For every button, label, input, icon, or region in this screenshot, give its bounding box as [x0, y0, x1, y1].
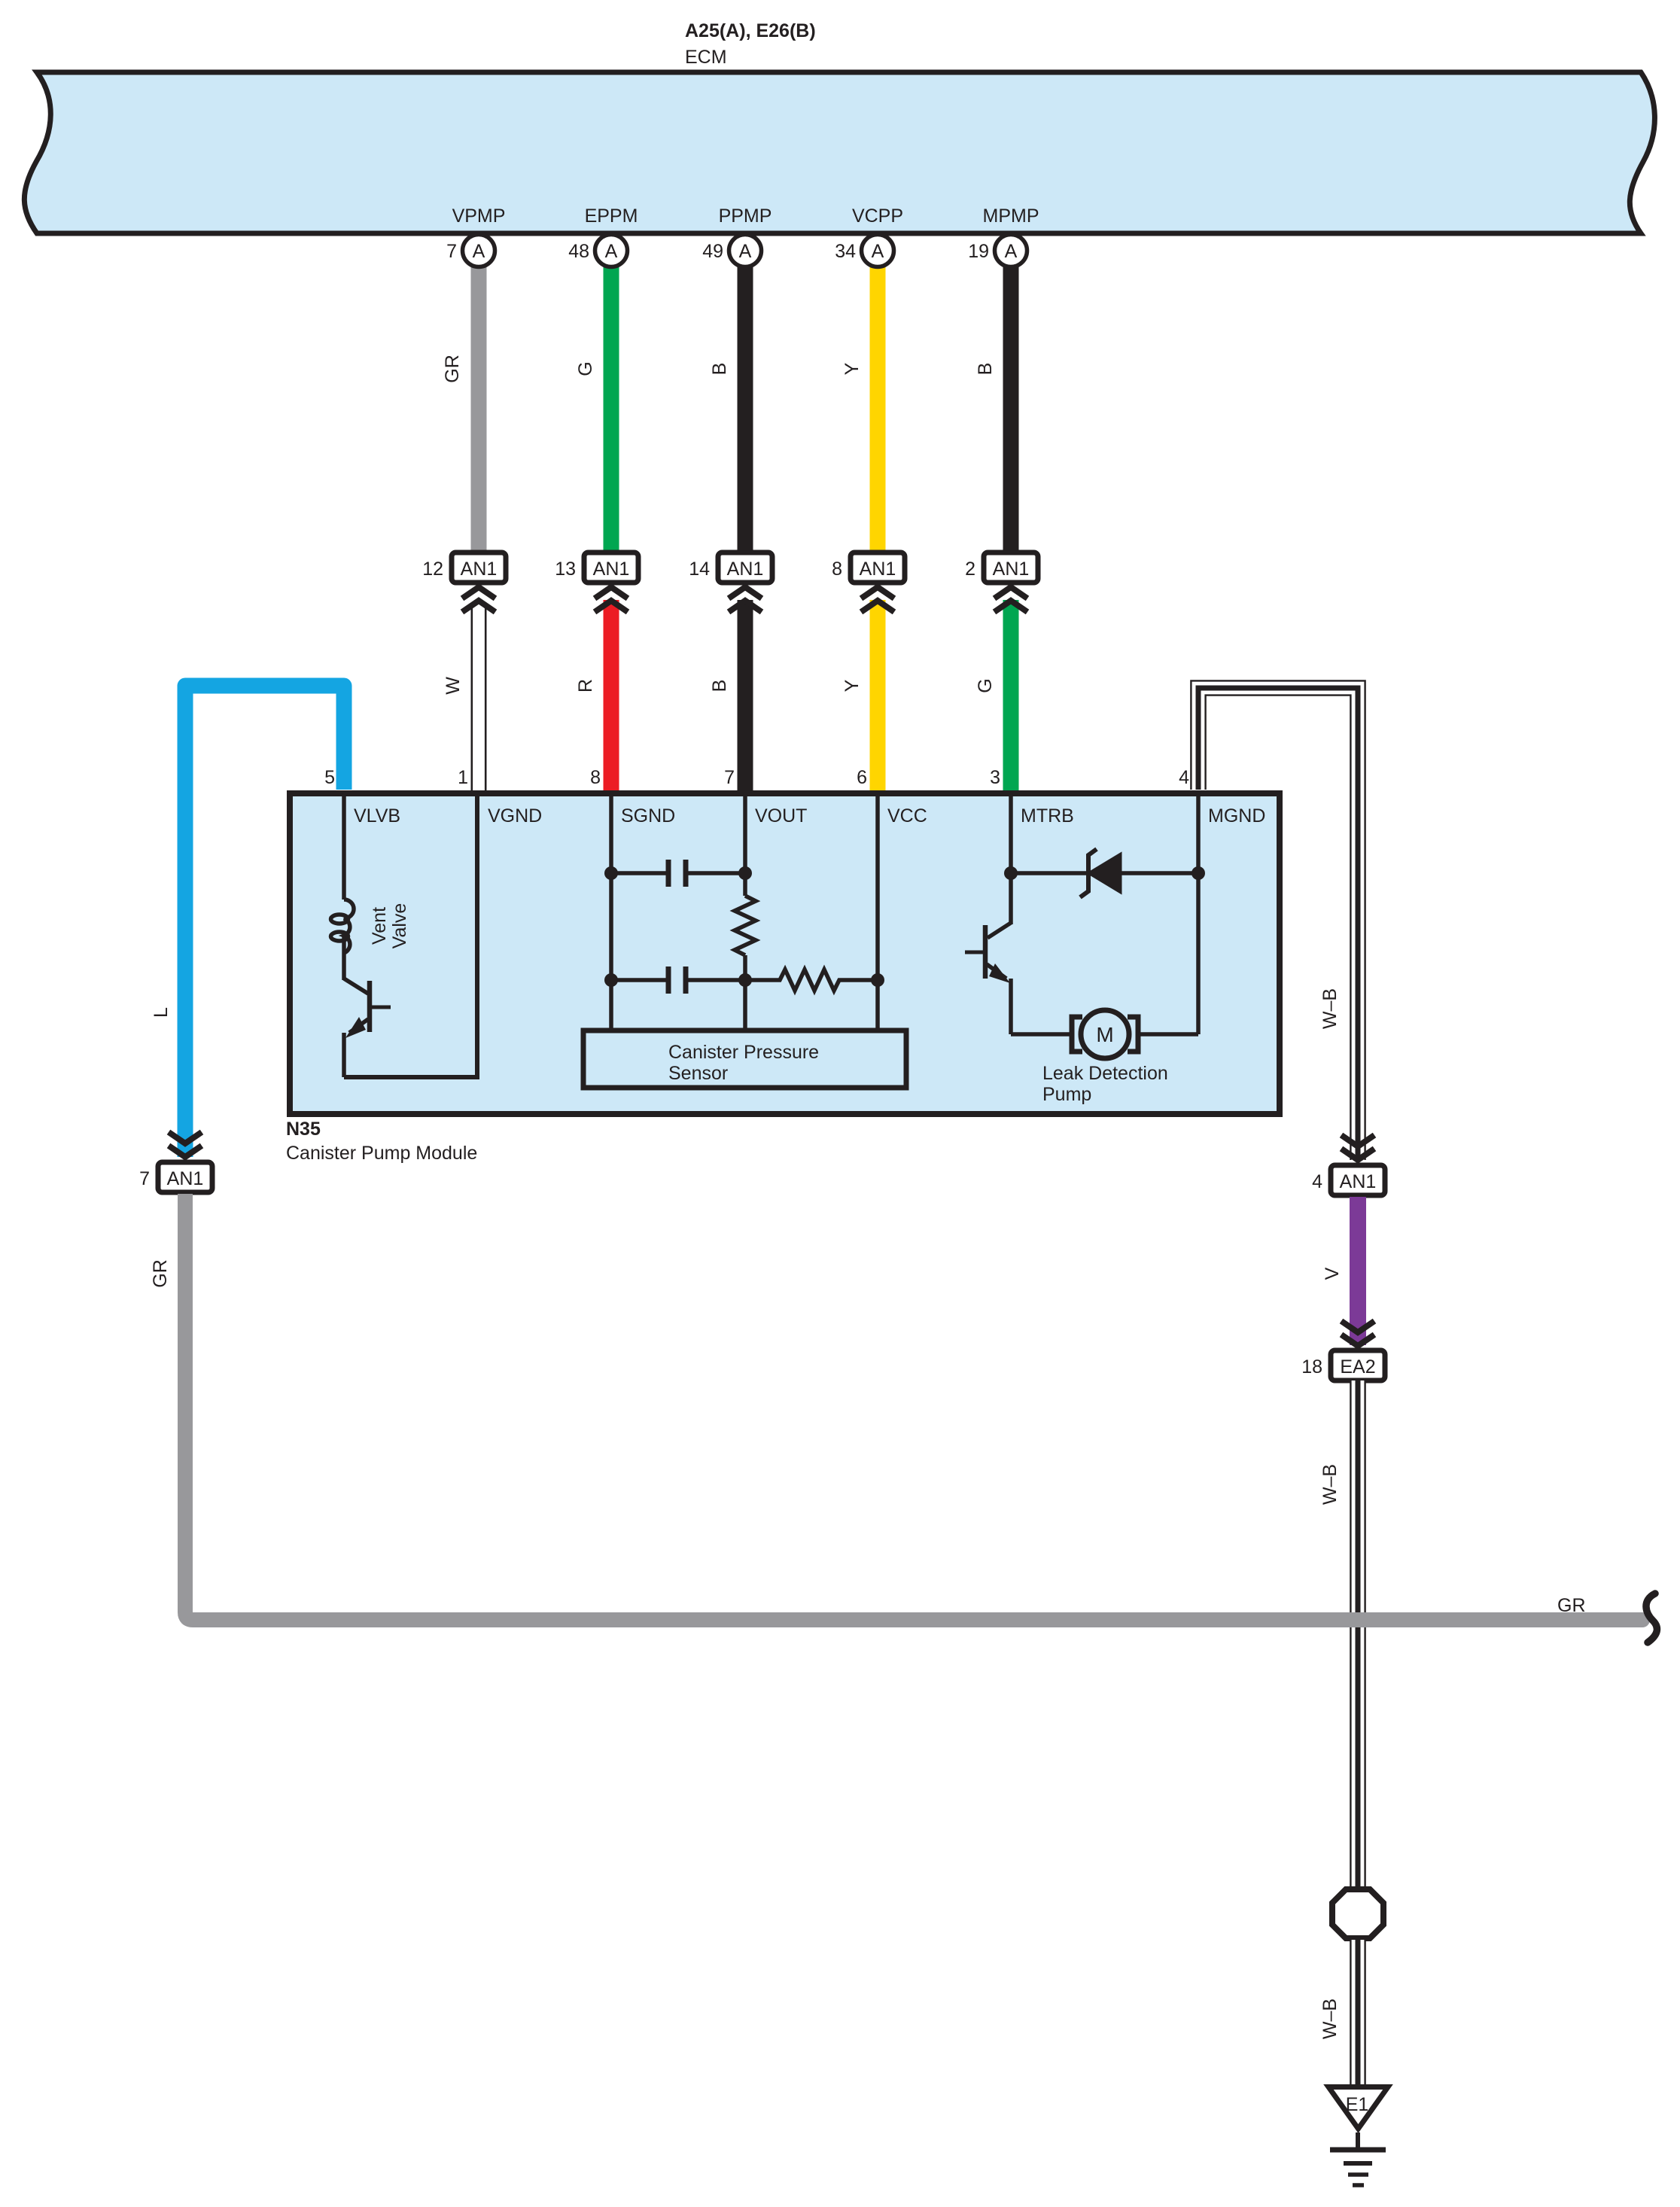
svg-text:4: 4	[1312, 1171, 1322, 1192]
wire EPPM G green ECM to AN1	[604, 265, 619, 553]
wire VPMP GR gray ECM to AN1	[471, 265, 487, 553]
zener diode cathode wire	[1121, 871, 1198, 875]
svg-text:A25(A), E26(B): A25(A), E26(B)	[685, 20, 816, 41]
ECM block A25(A),E26(B)	[24, 20, 1654, 233]
canister pressure sensor box	[583, 1030, 906, 1088]
wire B black AN1 to module pin7	[738, 600, 753, 793]
svg-text:EPPM: EPPM	[585, 205, 638, 227]
shield chevrons under 13 AN1	[595, 587, 628, 612]
connector 12 AN1	[422, 553, 506, 583]
svg-text:L: L	[151, 1007, 172, 1018]
svg-text:2: 2	[965, 559, 975, 580]
svg-text:Canister Pressure: Canister Pressure	[668, 1042, 819, 1063]
node dot SGND top	[604, 866, 618, 880]
wire R red AN1 to module pin8	[604, 600, 619, 793]
ECM pin 49 circle A	[702, 235, 761, 267]
svg-text:G: G	[575, 361, 596, 376]
svg-text:7: 7	[724, 767, 735, 788]
svg-text:19: 19	[968, 241, 989, 262]
sensor capacitor C2 bottom	[611, 967, 745, 994]
svg-text:VCPP: VCPP	[852, 205, 903, 227]
wire break symbol	[1646, 1594, 1657, 1642]
svg-text:48: 48	[568, 241, 589, 262]
ECM pin 19 circle A	[968, 235, 1027, 267]
svg-text:AN1: AN1	[461, 559, 498, 580]
svg-text:W–B: W–B	[1319, 988, 1341, 1029]
svg-text:AN1: AN1	[1340, 1171, 1377, 1192]
node dot MTRB	[1004, 866, 1018, 880]
splice octagon	[1332, 1889, 1383, 1938]
svg-text:A: A	[605, 241, 618, 262]
wire W white AN1 to module pin1	[471, 600, 487, 793]
svg-text:AN1: AN1	[167, 1168, 204, 1189]
svg-text:MGND: MGND	[1208, 805, 1265, 826]
svg-text:Y: Y	[842, 362, 863, 375]
svg-text:4: 4	[1179, 767, 1189, 788]
svg-text:7: 7	[446, 241, 457, 262]
node dot VOUT top	[738, 866, 752, 880]
svg-text:M: M	[1096, 1023, 1113, 1046]
svg-text:W: W	[443, 677, 464, 695]
sensor capacitor C1 top	[611, 860, 745, 887]
vent valve circuit wire VLVB	[342, 793, 346, 900]
svg-text:A: A	[1005, 241, 1018, 262]
wire VCPP Y yellow ECM to AN1	[870, 265, 886, 553]
sensor wire VOUT lower	[743, 955, 747, 1030]
connector 8 AN1	[832, 553, 905, 583]
sensor wire VCC	[875, 793, 880, 1030]
svg-text:B: B	[709, 363, 730, 376]
svg-text:VCC: VCC	[887, 805, 927, 826]
svg-text:7: 7	[139, 1168, 150, 1189]
svg-text:MPMP: MPMP	[983, 205, 1039, 227]
connector 13 AN1	[555, 553, 638, 583]
wire W-B below EA2 to octagon	[1350, 1381, 1365, 1888]
wire MGND internal	[1196, 793, 1201, 1034]
svg-text:34: 34	[835, 241, 856, 262]
svg-text:VPMP: VPMP	[452, 205, 506, 227]
node dot MGND	[1192, 866, 1205, 880]
zener diode anode wire	[1011, 871, 1087, 875]
vent valve transistor Q	[344, 936, 391, 1077]
sensor wire SGND	[609, 793, 613, 1030]
sensor resistor horizontal	[745, 970, 878, 991]
wire Y yellow AN1 to module pin6	[870, 600, 886, 793]
connector 14 AN1	[689, 553, 772, 583]
svg-text:GR: GR	[150, 1259, 171, 1288]
svg-text:V: V	[1322, 1267, 1343, 1280]
ECM pin 48 circle A	[568, 235, 627, 267]
connector 7 AN1	[139, 1162, 212, 1192]
vent valve transistor emitter arrow	[345, 1017, 366, 1038]
svg-text:G: G	[975, 678, 996, 693]
wire W-B below octagon to E1	[1350, 1940, 1365, 2084]
svg-text:A: A	[872, 241, 884, 262]
node dot VCC	[871, 973, 884, 987]
connector 2 AN1	[965, 553, 1038, 583]
wire G green AN1 to module pin3	[1003, 600, 1019, 793]
shield chevrons above 18 EA2	[1341, 1321, 1374, 1346]
svg-text:R: R	[575, 679, 596, 693]
svg-text:SGND: SGND	[621, 805, 675, 826]
svg-text:PPMP: PPMP	[719, 205, 772, 227]
shield chevrons under 8 AN1	[861, 587, 894, 612]
shield chevrons above 7 AN1	[169, 1132, 202, 1157]
wire PPMP B black ECM to AN1	[738, 265, 753, 553]
svg-text:VentValve: VentValve	[369, 903, 410, 949]
svg-text:AN1: AN1	[593, 559, 630, 580]
sensor wire VOUT upper	[743, 793, 747, 896]
svg-text:8: 8	[832, 559, 842, 580]
pump motor right wire	[1138, 1032, 1198, 1037]
pump motor left wire	[1011, 1032, 1072, 1037]
svg-text:18: 18	[1301, 1356, 1322, 1377]
svg-text:N35: N35	[286, 1119, 321, 1140]
svg-text:Canister Pump Module: Canister Pump Module	[286, 1143, 477, 1164]
connector 18 EA2	[1301, 1350, 1385, 1381]
pump wire MTRB	[1009, 793, 1013, 924]
svg-text:A: A	[739, 241, 752, 262]
svg-text:Y: Y	[842, 679, 863, 692]
svg-text:AN1: AN1	[860, 559, 896, 580]
svg-text:3: 3	[990, 767, 1000, 788]
shield chevrons above 4 AN1	[1341, 1135, 1374, 1160]
ground E1	[1328, 2087, 1388, 2186]
svg-text:B: B	[709, 680, 730, 693]
zener diode D1	[1080, 849, 1121, 897]
connector 4 AN1	[1312, 1165, 1385, 1195]
svg-text:B: B	[975, 363, 996, 376]
wire MPMP B black ECM to AN1	[1003, 265, 1019, 553]
vent valve coil	[331, 900, 355, 953]
ECM pin 7 circle A	[446, 235, 495, 267]
vent valve return wire to VGND	[344, 793, 477, 1077]
wire L blue from VLVB pin5 to 7 AN1	[185, 686, 344, 1157]
svg-text:14: 14	[689, 559, 710, 580]
node dot SGND bottom	[604, 973, 618, 987]
svg-text:GR: GR	[442, 355, 463, 383]
svg-text:VLVB: VLVB	[354, 805, 400, 826]
svg-text:W–B: W–B	[1319, 1998, 1341, 2039]
svg-text:5: 5	[324, 767, 335, 788]
svg-text:E1: E1	[1346, 2094, 1369, 2115]
shield chevrons under 14 AN1	[729, 587, 762, 612]
svg-text:A: A	[473, 241, 485, 262]
svg-text:ECM: ECM	[685, 47, 727, 68]
svg-text:W–B: W–B	[1319, 1464, 1341, 1505]
shield chevrons under 12 AN1	[462, 587, 495, 612]
svg-text:MTRB: MTRB	[1021, 805, 1074, 826]
sensor resistor vertical	[735, 896, 756, 955]
svg-text:GR: GR	[1557, 1595, 1586, 1616]
ECM pin 34 circle A	[835, 235, 893, 267]
svg-text:VGND: VGND	[488, 805, 542, 826]
wire GR gray from 7 AN1 to right break	[185, 1194, 1642, 1620]
svg-text:13: 13	[555, 559, 576, 580]
wire W-B from MGND pin4 around to 4 AN1	[1191, 680, 1365, 1160]
svg-text:1: 1	[458, 767, 468, 788]
node dot VOUT bottom	[738, 973, 752, 987]
shield chevrons under 2 AN1	[994, 587, 1027, 612]
svg-text:12: 12	[422, 559, 443, 580]
wire V violet 4 AN1 to 18 EA2	[1350, 1197, 1366, 1345]
svg-text:6: 6	[857, 767, 867, 788]
pump transistor emitter arrow	[989, 963, 1010, 983]
svg-text:49: 49	[702, 241, 723, 262]
svg-text:EA2: EA2	[1340, 1356, 1375, 1377]
module N35 box	[290, 793, 1280, 1114]
svg-text:AN1: AN1	[727, 559, 764, 580]
svg-text:VOUT: VOUT	[755, 805, 807, 826]
pump motor M	[1072, 1010, 1138, 1058]
svg-text:AN1: AN1	[993, 559, 1030, 580]
svg-text:Sensor: Sensor	[668, 1063, 728, 1084]
pump transistor Q2	[965, 923, 1011, 1034]
svg-text:8: 8	[590, 767, 601, 788]
